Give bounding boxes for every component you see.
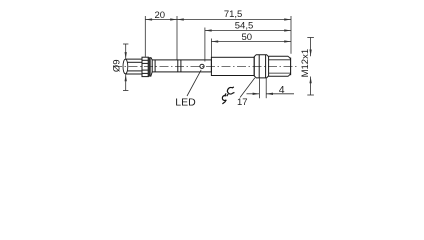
dimension 71,5 [177,16,291,60]
svg-text:M12x1: M12x1 [300,49,311,78]
dimension 50 [211,39,291,58]
svg-text:17: 17 [237,97,248,108]
svg-text:71,5: 71,5 [224,9,243,20]
cable [125,59,142,74]
hex nut [254,55,268,78]
wrench symbol [222,87,234,104]
thread [269,56,291,76]
cable gland [142,57,152,76]
LED window circle [200,64,204,68]
svg-text:4: 4 [279,84,285,96]
dimension 4 [247,78,295,98]
dimension Ø9 [123,44,128,91]
dimension M12x1 [307,38,314,96]
centerline [113,65,298,67]
dimension 20 [145,16,177,57]
svg-text:20: 20 [155,10,166,21]
svg-text:54,5: 54,5 [235,21,254,32]
wrench size 17 leader [240,78,255,98]
cable end ellipse [123,59,128,74]
shaft (rear tube) [152,60,211,72]
svg-text:LED: LED [175,96,196,108]
main barrel [211,57,254,75]
svg-text:Ø9: Ø9 [111,59,122,72]
LED label and leader [187,70,201,96]
svg-text:50: 50 [242,32,253,43]
dimension 54,5 [205,28,291,62]
